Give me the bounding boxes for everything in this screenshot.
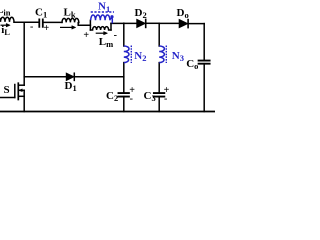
current arrow iL xyxy=(1,23,11,27)
capacitor C0 plates xyxy=(199,61,210,64)
wire N3 coil to C3 xyxy=(158,63,160,93)
current arrow for Lk xyxy=(60,26,76,30)
winding N1 (blue coil) xyxy=(91,12,114,23)
core dashed line N1 xyxy=(91,11,114,13)
wire top rail: N1/Lm to D2 xyxy=(111,22,137,24)
wire top rail: Lk to N1/Lm node (with jog) xyxy=(78,23,90,26)
wire middle rail xyxy=(24,76,124,78)
inductor Lk coil xyxy=(62,18,79,22)
transistor S gate bar xyxy=(14,85,16,98)
svg-text:-: - xyxy=(30,21,33,32)
wire top rail: D2 to N3 node xyxy=(146,22,160,24)
transistor S body stub xyxy=(18,89,24,91)
wire N3 branch: rail to coil xyxy=(158,23,160,46)
wire C2 to bottom rail xyxy=(123,97,125,112)
wire top rail: N3 node to D0 xyxy=(159,22,179,24)
svg-text:-: - xyxy=(130,94,133,105)
diode D2 xyxy=(137,19,145,27)
svg-text:+: + xyxy=(83,30,89,41)
wire C0 to bottom rail xyxy=(203,64,205,112)
diode D1 xyxy=(66,73,74,80)
inductor Lin coil xyxy=(0,17,14,22)
transistor S body arrow xyxy=(19,89,23,92)
capacitor C3 plates xyxy=(154,93,164,97)
wire N2 branch: rail to coil xyxy=(123,23,125,46)
winding N2 (blue coil) xyxy=(124,46,132,64)
svg-text:-: - xyxy=(114,30,117,41)
transistor S source stub xyxy=(18,95,24,97)
wire top rail: D0 to right corner xyxy=(188,23,204,25)
svg-text:-: - xyxy=(164,94,167,105)
capacitor C1 plates xyxy=(39,19,43,26)
transistor S drain stub xyxy=(18,84,24,86)
core dashed line N2 xyxy=(130,46,132,64)
svg-text:+: + xyxy=(44,23,50,34)
inductor Lm coil xyxy=(90,27,111,30)
polarity dot N1 xyxy=(110,15,113,18)
wire right branch down to C0 xyxy=(203,24,205,61)
wire top rail: C1 to Lk xyxy=(43,21,62,23)
transistor S gate lead wire xyxy=(0,97,15,99)
diode D0 xyxy=(179,20,187,28)
svg-text:S: S xyxy=(4,84,10,96)
transistor S channel bar xyxy=(17,83,19,99)
winding N3 (blue coil) xyxy=(159,46,166,64)
wire top rail: Lin to C1 xyxy=(14,21,39,23)
wire MOSFET source to bottom rail xyxy=(23,90,25,111)
wire N1/Lm right connector xyxy=(110,23,112,30)
wire N1/Lm left connector xyxy=(89,20,91,30)
wire bottom rail xyxy=(0,111,215,113)
wire N2 coil to C2 via middle rail node xyxy=(123,63,125,93)
wire C3 to bottom rail xyxy=(158,97,160,112)
capacitor C2 plates xyxy=(119,93,129,97)
current arrow magnetizing xyxy=(96,32,108,35)
wire left node down to MOSFET drain xyxy=(23,22,25,85)
core dashed line N3 xyxy=(165,46,167,64)
